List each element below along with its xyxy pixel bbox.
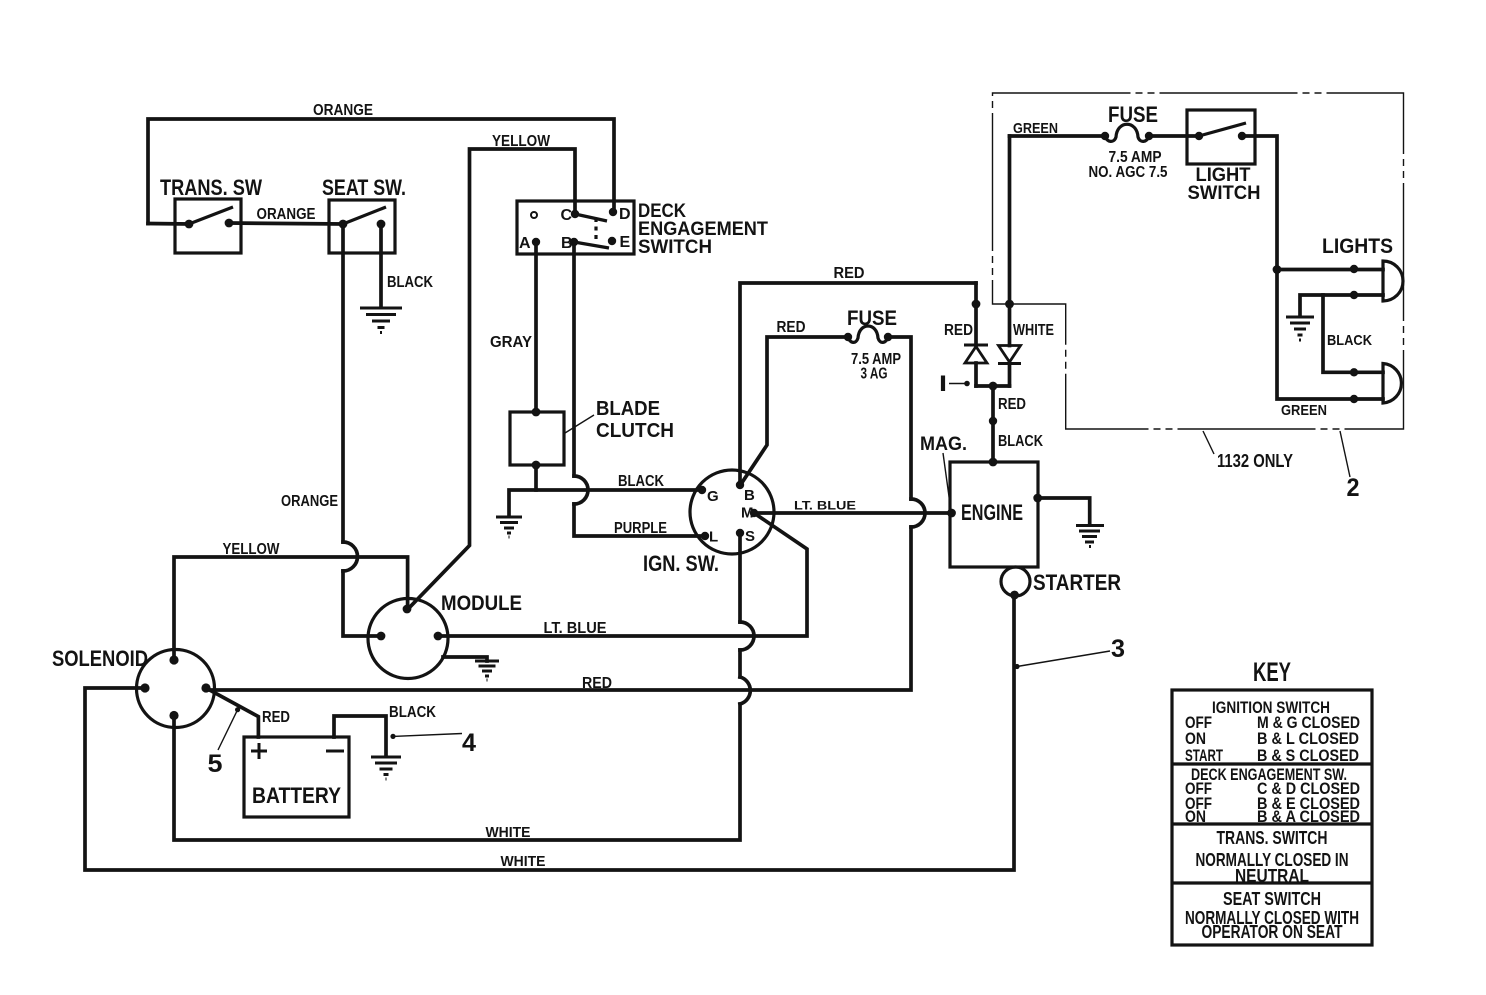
svg-text:BLACK: BLACK xyxy=(387,274,433,291)
wire ORANGE (trans.sw to seat sw) xyxy=(229,206,343,224)
lamp top xyxy=(1383,261,1403,301)
dashed box 1132 ONLY xyxy=(993,93,1404,502)
svg-text:ENGINE: ENGINE xyxy=(961,500,1023,525)
svg-text:YELLOW: YELLOW xyxy=(223,541,281,558)
svg-text:B: B xyxy=(561,235,573,252)
wire RED (ign sw B to diode junction, top run) xyxy=(740,265,976,485)
svg-text:WHITE: WHITE xyxy=(486,824,531,841)
svg-text:SOLENOID: SOLENOID xyxy=(52,646,148,671)
svg-text:3: 3 xyxy=(1111,635,1125,663)
wire RED (ign sw B to fuse left) xyxy=(741,319,848,484)
module xyxy=(368,592,522,679)
svg-text:NEUTRAL: NEUTRAL xyxy=(1235,866,1309,886)
wire BLACK (seat sw to ground) xyxy=(381,224,433,307)
callout 3 xyxy=(1014,635,1125,669)
svg-text:LT. BLUE: LT. BLUE xyxy=(794,501,856,513)
wire GRAY (deck pin A to blade clutch) xyxy=(490,242,536,412)
wire RED/BLACK (diode junction to engine mag) xyxy=(989,386,1044,462)
callout 1 xyxy=(943,376,970,392)
svg-text:ORANGE: ORANGE xyxy=(281,493,338,510)
key table xyxy=(1172,657,1372,945)
ground (engine) xyxy=(1076,526,1104,547)
svg-text:BLACK: BLACK xyxy=(1327,332,1372,349)
diode WHITE xyxy=(998,304,1054,386)
lamp bottom xyxy=(1383,364,1401,404)
wire GREEN (white diode to fuse) xyxy=(1005,120,1105,308)
svg-text:BATTERY: BATTERY xyxy=(252,783,341,808)
wire WHITE (ign sw S to solenoid bottom, hops lt.blue and red) xyxy=(174,533,754,841)
switch TRANS. SW xyxy=(148,175,262,253)
svg-text:SEAT SW.: SEAT SW. xyxy=(322,175,406,200)
solenoid xyxy=(52,646,215,728)
engine xyxy=(947,458,1042,567)
svg-text:L: L xyxy=(709,529,718,546)
blade clutch xyxy=(510,398,674,469)
svg-text:MODULE: MODULE xyxy=(441,592,522,615)
svg-text:MAG.: MAG. xyxy=(920,434,967,455)
svg-text:ORANGE: ORANGE xyxy=(313,102,373,119)
svg-text:5: 5 xyxy=(208,750,223,778)
svg-text:ORANGE: ORANGE xyxy=(257,206,316,223)
wire (junction to top lamp) xyxy=(1277,265,1383,273)
svg-text:FUSE: FUSE xyxy=(847,307,897,330)
light switch xyxy=(1187,110,1261,204)
svg-text:TRANS. SW: TRANS. SW xyxy=(160,175,262,200)
svg-text:CLUTCH: CLUTCH xyxy=(596,420,674,442)
svg-text:LIGHTS: LIGHTS xyxy=(1322,235,1393,258)
ground (blade clutch) xyxy=(496,517,522,537)
wire YELLOW (solenoid top to module top) xyxy=(174,541,408,660)
svg-text:D: D xyxy=(619,206,631,223)
svg-text:3 AG: 3 AG xyxy=(861,366,888,383)
svg-text:RED: RED xyxy=(834,265,865,282)
fuse 7.5 AMP 3 AG xyxy=(844,307,901,383)
svg-text:FUSE: FUSE xyxy=(1108,102,1158,127)
svg-text:WHITE: WHITE xyxy=(1013,322,1054,339)
svg-text:WHITE: WHITE xyxy=(501,853,546,870)
svg-text:E: E xyxy=(620,234,631,251)
ground (battery) xyxy=(371,757,401,779)
svg-text:START: START xyxy=(1185,746,1223,765)
svg-text:RED: RED xyxy=(777,319,806,336)
svg-text:ON: ON xyxy=(1185,807,1206,826)
svg-text:BLACK: BLACK xyxy=(618,473,664,490)
svg-text:RED: RED xyxy=(998,396,1026,413)
ground (lights) xyxy=(1286,317,1314,340)
svg-text:A: A xyxy=(519,235,531,252)
svg-text:BLACK: BLACK xyxy=(389,704,436,721)
svg-text:PURPLE: PURPLE xyxy=(614,520,667,537)
wire LT. BLUE (ign sw M to module right pin) xyxy=(438,513,807,637)
svg-text:KEY: KEY xyxy=(1253,657,1291,687)
svg-text:B & A CLOSED: B & A CLOSED xyxy=(1257,807,1360,826)
svg-text:M: M xyxy=(741,505,754,522)
svg-text:SWITCH: SWITCH xyxy=(1188,183,1261,204)
callout 4 xyxy=(390,729,476,757)
ground (module) xyxy=(475,661,499,680)
svg-text:LT. BLUE: LT. BLUE xyxy=(544,620,607,637)
svg-text:B & S CLOSED: B & S CLOSED xyxy=(1257,746,1359,765)
svg-text:C: C xyxy=(560,207,572,224)
wire (engine to ground) xyxy=(1038,498,1090,524)
callout 5 xyxy=(208,707,241,778)
switch SEAT SW. xyxy=(322,175,406,253)
svg-text:2: 2 xyxy=(1347,474,1360,502)
svg-text:NO. AGC 7.5: NO. AGC 7.5 xyxy=(1089,164,1168,181)
svg-text:G: G xyxy=(707,488,719,505)
starter xyxy=(1001,567,1121,599)
svg-text:RED: RED xyxy=(262,709,290,726)
wire ORANGE (seat sw to module, hops yellow) xyxy=(281,224,381,636)
wire LT. BLUE (ign sw M to engine) xyxy=(754,501,951,514)
battery xyxy=(244,737,349,817)
deck engagement switch xyxy=(517,201,768,258)
svg-text:GRAY: GRAY xyxy=(490,334,532,351)
node diode junction xyxy=(976,382,1010,391)
svg-text:BLACK: BLACK xyxy=(998,433,1043,450)
wire (module to ground) xyxy=(443,657,487,661)
svg-text:RED: RED xyxy=(944,322,973,339)
svg-text:SWITCH: SWITCH xyxy=(638,237,712,258)
svg-text:1132 ONLY: 1132 ONLY xyxy=(1217,451,1293,471)
svg-text:BLADE: BLADE xyxy=(596,398,660,420)
svg-text:4: 4 xyxy=(462,729,476,757)
svg-text:YELLOW: YELLOW xyxy=(492,133,551,150)
wire WHITE (solenoid left pin to starter, bottom run) xyxy=(85,595,1014,870)
svg-text:GREEN: GREEN xyxy=(1281,402,1327,419)
svg-text:RED: RED xyxy=(582,675,612,692)
ignition switch IGN. SW. xyxy=(643,470,774,576)
wire RED (solenoid to battery +) xyxy=(206,688,290,737)
wire (light switch to lamps) xyxy=(1242,136,1383,419)
wire BLACK (blade clutch to ign sw G) xyxy=(509,465,702,516)
svg-text:S: S xyxy=(745,528,755,545)
wire BLACK (lamp returns) xyxy=(1300,291,1383,377)
svg-text:SEAT SWITCH: SEAT SWITCH xyxy=(1223,889,1321,909)
svg-text:B: B xyxy=(744,487,755,504)
svg-text:IGN. SW.: IGN. SW. xyxy=(643,551,719,576)
svg-text:OPERATOR ON SEAT: OPERATOR ON SEAT xyxy=(1202,922,1343,942)
wire YELLOW (deck switch pin C) xyxy=(408,133,575,609)
svg-text:TRANS. SWITCH: TRANS. SWITCH xyxy=(1217,828,1328,848)
wire BLACK (battery - to ground) xyxy=(334,704,436,755)
wire (fuse to light switch) xyxy=(1149,134,1199,138)
wire PURPLE (deck pin B to ign sw L, hops black) xyxy=(574,242,705,537)
diode RED xyxy=(944,283,988,386)
svg-text:GREEN: GREEN xyxy=(1013,120,1058,137)
wire RED (fuse right to solenoid, hops lt.blue) xyxy=(206,337,925,692)
svg-text:STARTER: STARTER xyxy=(1033,570,1121,595)
label MAG. with callout xyxy=(920,434,967,511)
ground (seat switch) xyxy=(360,308,402,333)
wire ORANGE (trans.sw to deck switch pin D) xyxy=(148,102,614,224)
fuse 7.5 AMP NO. AGC 7.5 xyxy=(1089,102,1168,181)
